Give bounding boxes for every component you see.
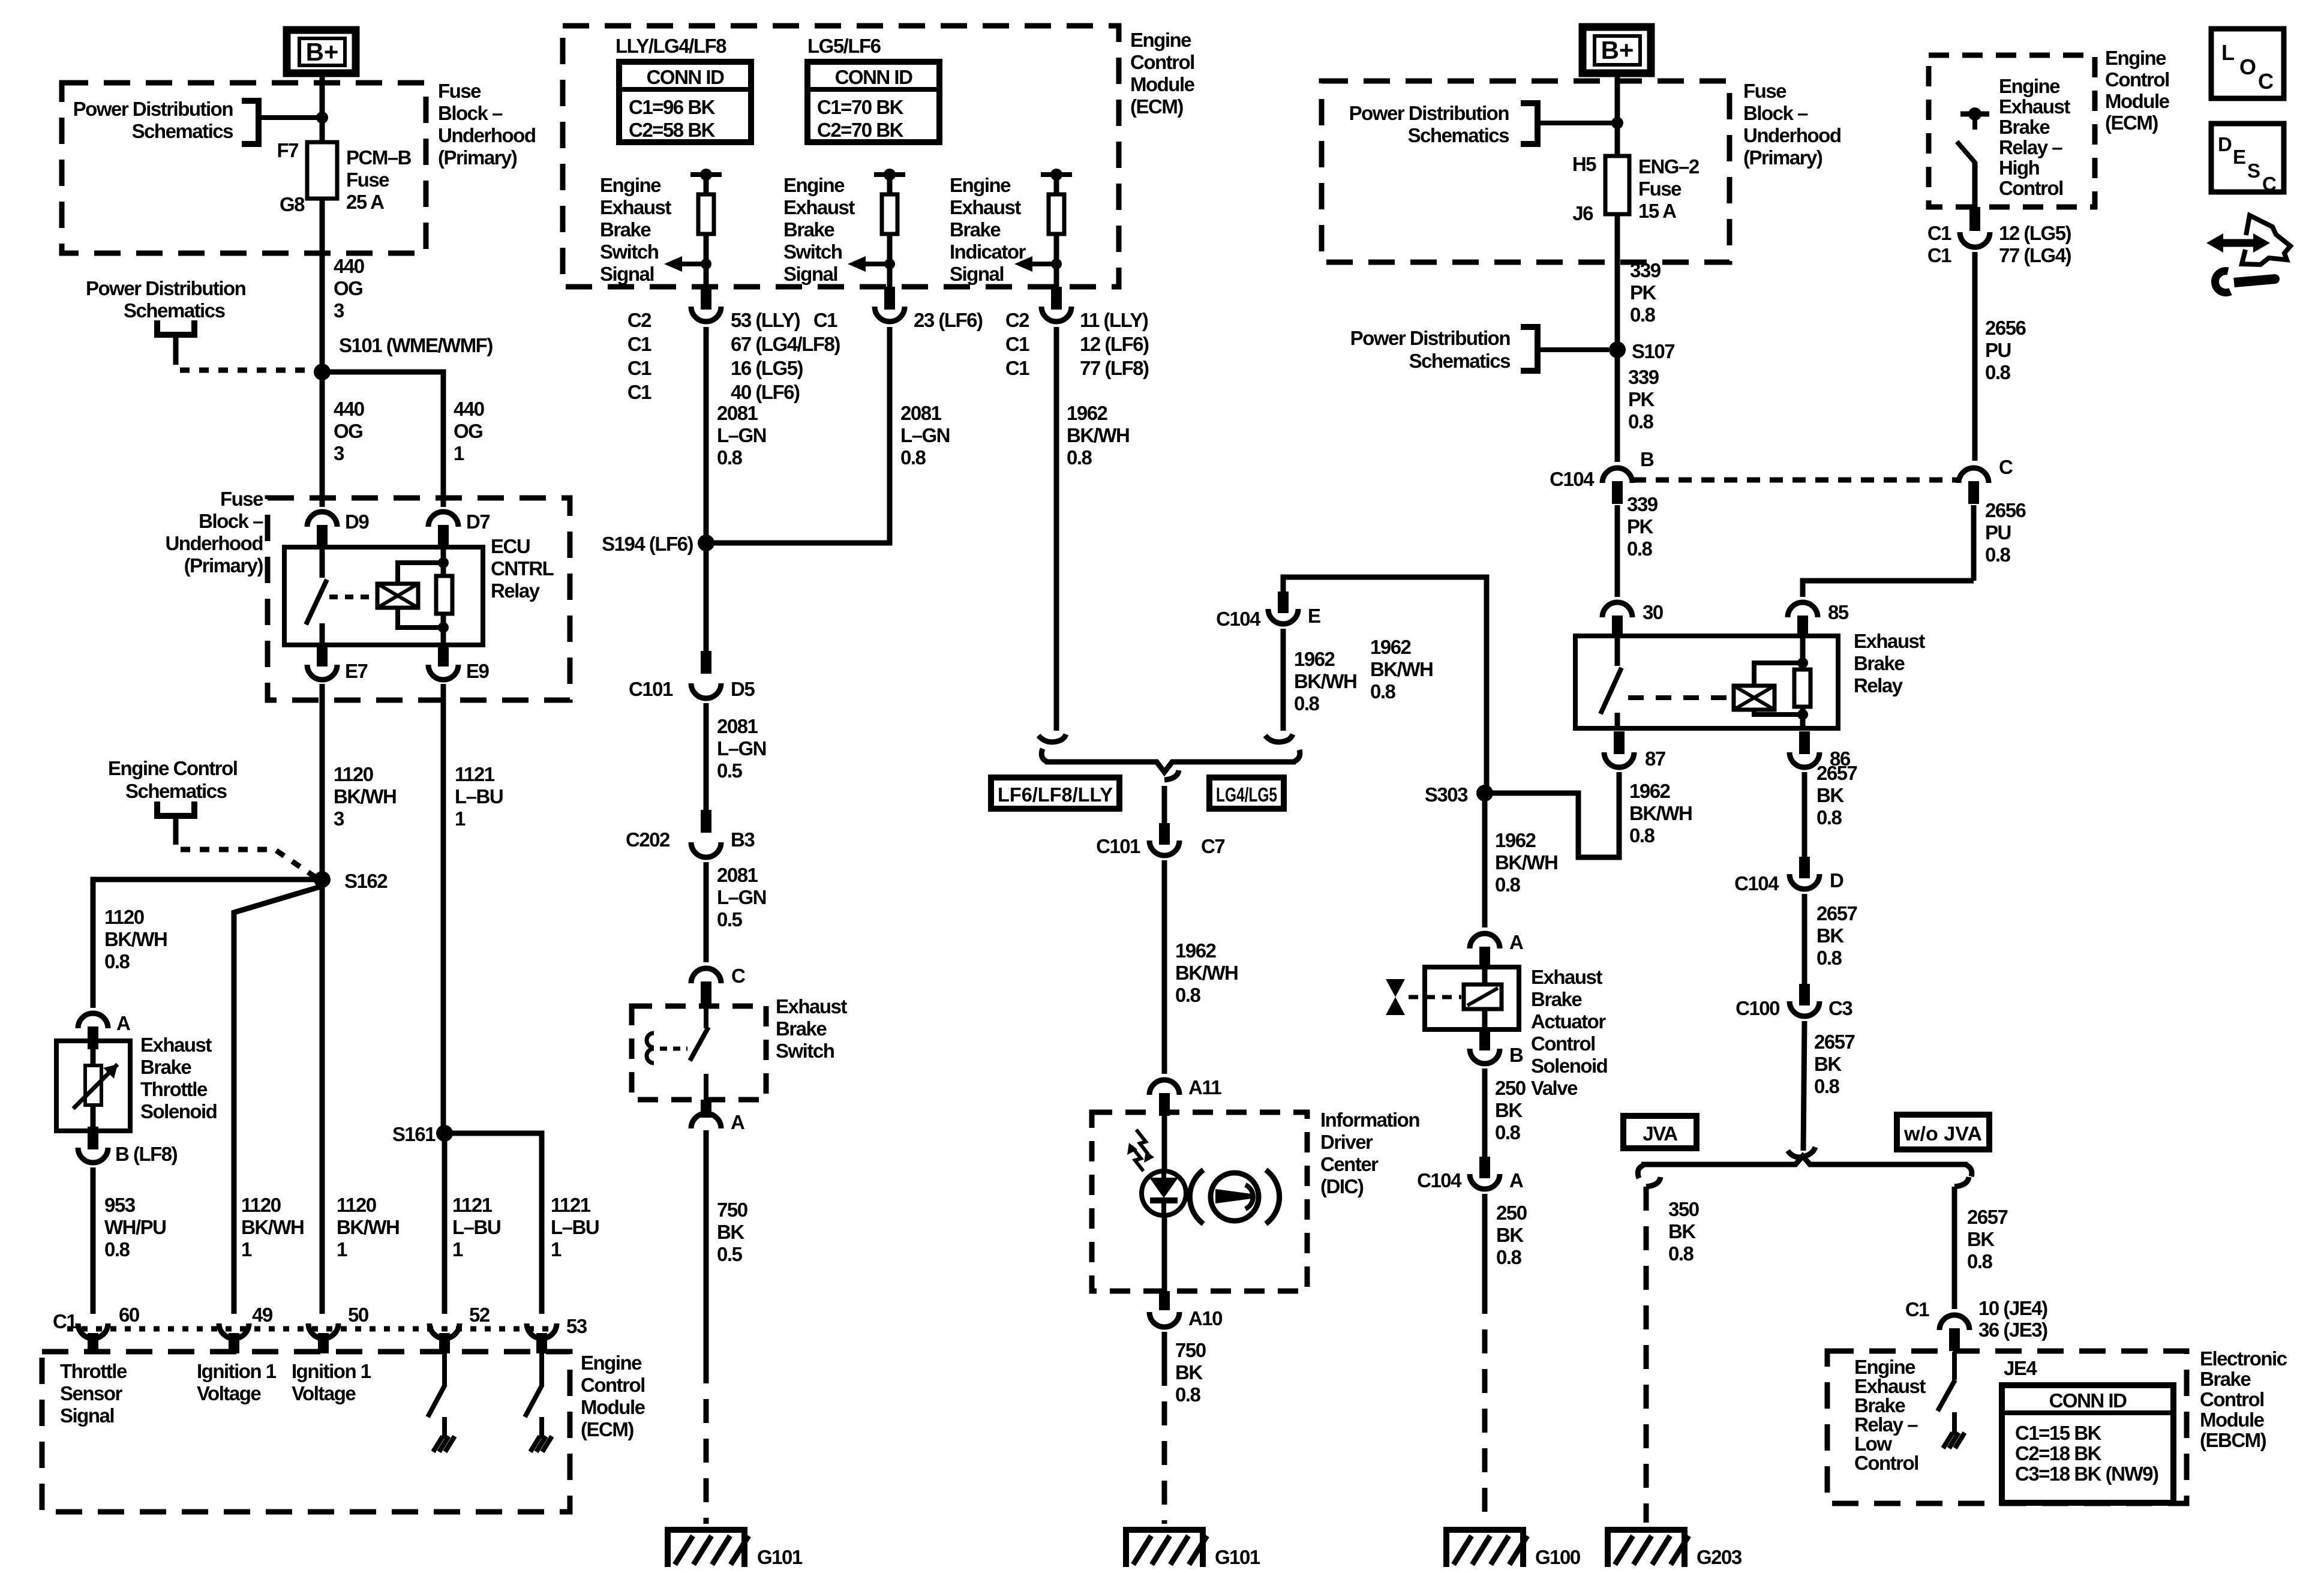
w/o JVA option box [1897,1115,1989,1149]
svg-text:(ECM): (ECM) [581,1418,633,1440]
relay coil-resistor wire [441,547,446,645]
svg-text:ENG–2: ENG–2 [1638,155,1700,178]
svg-text:Electronic: Electronic [2200,1347,2287,1370]
exhaust brake switch dashed box [632,1006,766,1100]
valve dashed link [1409,995,1461,999]
svg-text:1: 1 [337,1238,347,1260]
wire 440 OG 1 [322,372,443,507]
svg-text:2656: 2656 [1985,317,2026,339]
CONN ID table 1 [619,62,751,142]
relay 85-86 wire [1800,636,1806,728]
svg-text:Control: Control [2200,1388,2264,1410]
wire B+ to fuse H5 [1615,73,1620,156]
svg-text:50: 50 [348,1304,368,1326]
svg-text:C1: C1 [53,1310,77,1332]
wire 750 BK 0.8 [1162,1332,1167,1362]
svg-text:Control: Control [1999,177,2063,199]
svg-text:Brake: Brake [783,218,834,241]
svg-text:Schematics: Schematics [124,299,225,322]
svg-text:0.5: 0.5 [717,760,743,782]
svg-text:Module: Module [2105,90,2170,112]
svg-text:0.8: 0.8 [1370,680,1396,703]
svg-text:H5: H5 [1572,153,1596,175]
svg-text:16 (LG5): 16 (LG5) [731,357,803,379]
relay resistor right [1794,670,1810,707]
svg-text:B: B [1640,448,1654,470]
wire 87 to S303 [1489,772,1619,857]
svg-text:Signal: Signal [783,263,837,285]
svg-text:C3=18 BK (NW9): C3=18 BK (NW9) [2015,1463,2158,1485]
svg-text:C7: C7 [1201,835,1224,857]
svg-text:C104: C104 [1550,468,1595,490]
svg-text:C1: C1 [627,381,651,403]
svg-text:LG5/LF6: LG5/LF6 [807,35,881,57]
svg-text:G101: G101 [1215,1546,1260,1568]
svg-text:2657: 2657 [1967,1206,2008,1228]
ground G101 left [668,1530,744,1567]
svg-text:PK: PK [1630,281,1657,304]
coil loop bottom [398,608,443,628]
svg-text:12 (LF6): 12 (LF6) [1080,333,1149,355]
wire end curl LG4/LG5 [1265,734,1293,742]
svg-text:D9: D9 [345,511,369,533]
svg-text:23 (LF6): 23 (LF6) [914,309,983,331]
bracket to S107 [1521,327,1538,371]
svg-text:Module: Module [1130,73,1195,95]
junction right B+ wire [1611,117,1623,129]
wire 1962 to actuator A [1482,793,1488,927]
svg-text:1120: 1120 [337,1194,376,1216]
svg-text:A10: A10 [1188,1307,1222,1329]
connector C104 C [1959,468,1989,483]
svg-text:JE4: JE4 [2004,1357,2037,1379]
dashed wire 350 BK to G203 [1644,1187,1649,1523]
svg-text:Actuator: Actuator [1531,1010,1606,1032]
svg-text:L–GN: L–GN [717,737,766,760]
svg-text:0.8: 0.8 [1629,824,1655,846]
service icon: double arrow [2221,239,2256,247]
svg-text:339: 339 [1627,493,1658,515]
svg-text:BK/WH: BK/WH [1294,670,1356,692]
svg-text:0.8: 0.8 [1630,304,1656,326]
svg-text:(Primary): (Primary) [184,554,263,577]
svg-text:Schematics: Schematics [1408,124,1509,146]
svg-text:Control: Control [1130,51,1194,73]
connector C104 E [1268,609,1298,624]
svg-text:Fuse: Fuse [1743,80,1786,102]
svg-text:2081: 2081 [717,715,758,737]
svg-text:L: L [2221,40,2235,65]
connector A10 [1149,1312,1179,1327]
svg-text:Module: Module [581,1396,645,1418]
svg-text:Valve: Valve [1531,1077,1578,1099]
svg-text:Throttle: Throttle [60,1360,127,1382]
relay coil right [1734,686,1774,710]
wire end curl LF6/LF8/LLY [1038,734,1066,742]
svg-text:3: 3 [334,299,344,322]
wire 953 WH/PU [91,1167,96,1314]
relay high control switch glyph [1960,112,1989,117]
svg-text:(Primary): (Primary) [438,146,517,169]
svg-text:C2=70 BK: C2=70 BK [817,119,904,141]
svg-text:Indicator: Indicator [950,241,1026,263]
svg-text:BK: BK [1816,784,1844,806]
svg-text:S107: S107 [1632,340,1674,362]
junction on B+ wire [316,112,328,124]
svg-text:25 A: 25 A [346,191,384,213]
svg-text:Ignition 1: Ignition 1 [292,1360,371,1382]
svg-text:87: 87 [1645,748,1665,770]
svg-text:Engine: Engine [600,174,661,196]
fuse block underhood dashed box 2 (relay) [268,498,570,700]
wire 440 OG 3 lower [320,372,325,507]
svg-text:2081: 2081 [717,864,758,886]
svg-text:Information: Information [1320,1109,1419,1131]
svg-text:Underhood: Underhood [1743,124,1840,146]
outlet curl below brace [1164,770,1179,780]
connector C1 ECM high [1960,232,1990,247]
svg-text:0.8: 0.8 [1985,544,2011,566]
coil loop bottom [1754,710,1803,715]
ground G100 [1446,1530,1523,1567]
svg-text:BK: BK [1495,1099,1523,1121]
wire 2657 BK [1802,772,1807,857]
svg-text:Underhood: Underhood [166,532,263,554]
ECM internal switch 53 [539,1353,544,1386]
EBCM dashed box [1827,1351,2187,1503]
svg-text:BK: BK [717,1221,744,1243]
svg-text:E: E [2233,146,2246,168]
svg-text:1962: 1962 [1175,939,1217,962]
svg-text:Switch: Switch [600,241,659,263]
svg-text:0.8: 0.8 [1628,410,1654,433]
wire 2656 PU 0.8 [1972,252,1978,461]
wire 1962 BK/WH to C104 E [1283,577,1487,789]
svg-text:Power Distribution: Power Distribution [73,98,233,120]
ECM driver: exhaust brake switch signal LG5/LF6 [874,172,905,177]
svg-text:A: A [1509,1169,1523,1191]
relay switch 30-87 [1615,636,1620,666]
merge brace options [1041,749,1047,762]
svg-text:Switch: Switch [783,241,842,263]
svg-text:L–BU: L–BU [455,785,503,807]
solenoid resistor [85,1065,101,1105]
svg-text:Exhaust: Exhaust [783,196,855,218]
svg-text:CONN ID: CONN ID [2049,1389,2127,1412]
svg-text:C1: C1 [1905,1298,1929,1320]
wire 1121 to pin 53 [445,1133,542,1314]
svg-text:Control: Control [1854,1452,1918,1474]
svg-text:C104: C104 [1216,608,1261,630]
svg-text:15 A: 15 A [1638,200,1676,222]
svg-text:OG: OG [334,420,362,442]
option box LG4/LG5 [1209,778,1284,809]
CONN ID table 2 [807,62,939,142]
svg-text:350: 350 [1668,1198,1699,1220]
svg-text:BK: BK [1816,924,1844,947]
svg-text:0.8: 0.8 [1967,1250,1993,1272]
bracket and dashed leader to S162 [157,801,194,816]
svg-text:1962: 1962 [1629,780,1671,802]
exhaust brake relay box [1575,636,1838,728]
svg-text:G8: G8 [280,193,305,215]
svg-text:Relay: Relay [1854,674,1903,697]
wire 339 PK lower [1615,350,1620,462]
svg-text:Engine Control: Engine Control [108,757,237,779]
wire end curl at split [1788,1147,1815,1157]
svg-text:Brake: Brake [950,218,1001,241]
svg-text:Engine: Engine [2105,47,2166,69]
svg-text:953: 953 [104,1194,136,1216]
svg-text:BK: BK [1496,1224,1524,1246]
dashed wire to G101 right [1162,1362,1167,1524]
connector C202 B3 [691,842,721,857]
wire 2657 BK to EBCM [1952,1187,1957,1309]
wire 250 BK [1482,1068,1488,1157]
exhaust brake actuator control solenoid valve [1425,967,1519,1029]
svg-text:40 (LF6): 40 (LF6) [731,381,800,403]
wire 1120 BK/WH to pin 49 [234,887,320,1314]
svg-text:C1: C1 [627,333,651,355]
svg-text:Engine: Engine [1999,75,2060,97]
svg-text:750: 750 [717,1199,747,1221]
svg-text:1962: 1962 [1495,829,1536,851]
svg-text:F7: F7 [277,139,298,161]
svg-text:Exhaust: Exhaust [600,196,671,218]
svg-text:1: 1 [241,1238,252,1260]
wire to throttle solenoid A [93,879,322,1008]
svg-text:C1=15 BK: C1=15 BK [2015,1422,2102,1444]
coil loop top [398,563,443,584]
svg-text:11 (LLY): 11 (LLY) [1080,309,1148,331]
solenoid core [1464,984,1502,1009]
svg-text:0.8: 0.8 [1668,1242,1694,1265]
svg-text:0.8: 0.8 [1627,538,1653,560]
svg-text:PCM–B: PCM–B [346,146,412,169]
svg-text:1120: 1120 [241,1194,281,1216]
svg-text:Control: Control [1531,1032,1595,1055]
connector C1 pin 53 [527,1323,557,1338]
svg-text:C101: C101 [1096,835,1140,857]
svg-text:PU: PU [1985,521,2011,544]
CONN ID table 3 [2002,1385,2173,1503]
svg-text:CONN ID: CONN ID [647,66,725,88]
svg-text:Signal: Signal [950,263,1004,285]
svg-text:0.8: 0.8 [104,950,130,972]
relay actuation dashed link [329,595,372,599]
svg-text:J6: J6 [1572,202,1593,224]
svg-text:1: 1 [455,807,466,830]
svg-text:0.8: 0.8 [1816,806,1842,828]
svg-text:(ECM): (ECM) [2105,112,2158,134]
svg-text:C1: C1 [627,357,651,379]
svg-text:0.8: 0.8 [1985,361,2011,383]
svg-text:0.8: 0.8 [1294,692,1320,715]
connector A11 [1149,1080,1179,1095]
svg-text:Driver: Driver [1320,1131,1373,1153]
LED indicator [1142,1171,1186,1215]
svg-text:Engine: Engine [950,174,1011,196]
svg-text:1962: 1962 [1294,648,1335,670]
service icon: component outline [2242,215,2290,265]
wire 2657 BK mid [1802,894,1807,984]
svg-text:60: 60 [119,1304,139,1326]
connector C101 D5 [691,683,721,698]
svg-text:(ECM): (ECM) [1130,95,1183,118]
svg-text:2081: 2081 [900,402,942,424]
svg-text:A: A [731,1111,744,1133]
svg-text:C: C [1999,456,2013,478]
svg-text:L–BU: L–BU [452,1216,500,1238]
LED emission arrows [1131,1130,1148,1171]
connector relay pin 30 [1602,602,1632,617]
svg-text:O: O [2239,55,2256,79]
svg-text:Relay –: Relay – [1999,136,2062,158]
connector E7 [307,665,337,680]
w/o JVA branch curl [1954,1177,1969,1187]
connector C1 pin 60 [78,1323,108,1338]
JVA option box [1623,1116,1697,1148]
svg-text:D: D [1830,869,1843,891]
svg-text:w/o JVA: w/o JVA [1903,1122,1982,1145]
svg-text:Ignition 1: Ignition 1 [197,1360,277,1382]
wire 1962 BK/WH 0.8 to DIC [1162,860,1167,1074]
svg-text:BK: BK [1814,1053,1842,1075]
svg-text:C1=70 BK: C1=70 BK [817,96,904,118]
connector relay pin 87 [1604,752,1634,767]
connector A switch [691,1113,721,1128]
svg-text:Signal: Signal [600,263,654,285]
svg-text:C: C [2258,69,2274,94]
svg-text:49: 49 [252,1304,273,1326]
splice S107 [1609,341,1626,358]
svg-text:3: 3 [334,807,344,830]
ECM driver: exhaust brake indicator signal [1041,172,1072,177]
svg-text:G100: G100 [1535,1546,1580,1568]
svg-text:Brake: Brake [1854,652,1905,674]
butterfly valve [1386,979,1405,997]
svg-text:BK: BK [1967,1228,1995,1250]
ECM internal switch 52 [442,1353,447,1386]
variable arrow [73,1064,118,1109]
svg-text:Power Distribution: Power Distribution [86,277,246,299]
JVA branch curl [1646,1177,1661,1187]
svg-text:Brake: Brake [140,1056,191,1078]
svg-text:D5: D5 [731,678,755,700]
svg-text:0.8: 0.8 [104,1238,130,1260]
battery feed B+ (left) [287,30,356,73]
C1 dotted connector line [67,1326,555,1332]
svg-text:WH/PU: WH/PU [104,1216,166,1238]
svg-text:440: 440 [334,255,364,277]
split brace JVA options [1638,1165,1644,1178]
svg-text:BK/WH: BK/WH [1067,424,1129,446]
ECU CNTRL relay box [284,547,483,645]
svg-text:Engine: Engine [783,174,845,196]
connector C1 pin 49 [219,1323,249,1338]
svg-text:Fuse: Fuse [220,488,263,510]
svg-text:Center: Center [1320,1153,1379,1175]
connector C1 pin 52 [430,1323,460,1338]
internal ground EBCM [1952,1413,1957,1435]
svg-text:85: 85 [1828,601,1849,623]
svg-text:Brake: Brake [600,218,651,241]
svg-text:Fuse: Fuse [346,169,389,191]
svg-text:Fuse: Fuse [438,80,481,102]
svg-text:Brake: Brake [2200,1368,2251,1390]
svg-text:BK/WH: BK/WH [1629,802,1692,824]
svg-text:BK: BK [1668,1220,1696,1242]
splice S101 [314,364,331,380]
svg-text:C1: C1 [1005,357,1029,379]
svg-text:2657: 2657 [1816,902,1857,924]
svg-text:Engine: Engine [1130,29,1191,51]
svg-text:D7: D7 [466,511,490,533]
svg-text:440: 440 [334,398,364,420]
svg-text:Exhaust: Exhaust [776,995,847,1017]
svg-text:Fuse: Fuse [1638,178,1682,200]
svg-text:OG: OG [454,420,482,442]
svg-text:S161: S161 [392,1123,436,1145]
svg-text:0.5: 0.5 [717,1243,743,1265]
svg-text:Sensor: Sensor [60,1382,123,1404]
connector B (LF8) [78,1148,108,1163]
svg-text:1: 1 [454,442,464,464]
svg-text:LLY/LG4/LF8: LLY/LG4/LF8 [615,35,726,57]
svg-text:A: A [116,1012,130,1034]
svg-text:(DIC): (DIC) [1320,1175,1364,1197]
svg-text:PU: PU [1985,339,2011,361]
svg-text:Block –: Block – [199,510,263,532]
svg-text:ECU: ECU [491,535,530,557]
svg-text:1121: 1121 [551,1194,591,1216]
svg-text:LG4/LG5: LG4/LG5 [1216,784,1277,806]
wire to G101 dashed [704,1359,709,1524]
information driver center dashed box [1092,1112,1307,1291]
connector B actuator [1470,1049,1500,1064]
fuse block dashed box (right) [1322,81,1730,262]
svg-text:C: C [731,965,745,987]
svg-text:Solenoid: Solenoid [140,1100,217,1122]
svg-text:Exhaust: Exhaust [1854,630,1925,652]
svg-text:0.8: 0.8 [1495,1121,1521,1143]
svg-text:52: 52 [469,1304,490,1326]
svg-text:53: 53 [566,1315,587,1337]
svg-text:53 (LLY): 53 (LLY) [731,309,800,331]
svg-text:Exhaust: Exhaust [950,196,1021,218]
connector D9 [307,512,337,527]
svg-text:(EBCM): (EBCM) [2200,1429,2266,1451]
connector D7 [428,512,458,527]
svg-text:C2=18 BK: C2=18 BK [2015,1442,2102,1464]
svg-text:BK/WH: BK/WH [241,1216,304,1238]
svg-text:0.8: 0.8 [900,446,926,469]
wire 1121 L-BU 1 [441,684,446,1127]
svg-text:G101: G101 [757,1546,803,1568]
svg-text:77 (LG4): 77 (LG4) [1999,244,2071,266]
svg-text:Block –: Block – [438,102,503,124]
svg-text:E7: E7 [345,660,368,682]
svg-text:C2=58 BK: C2=58 BK [629,119,716,141]
svg-text:1121: 1121 [455,763,495,785]
svg-text:0.8: 0.8 [1175,984,1201,1006]
svg-text:D: D [2218,133,2232,155]
svg-text:Exhaust: Exhaust [140,1034,212,1056]
engine exhaust brake relay high control dashed box [1929,55,2095,207]
svg-text:10 (JE4): 10 (JE4) [1978,1297,2047,1319]
svg-text:A: A [1509,931,1523,953]
svg-text:1120: 1120 [334,763,373,785]
